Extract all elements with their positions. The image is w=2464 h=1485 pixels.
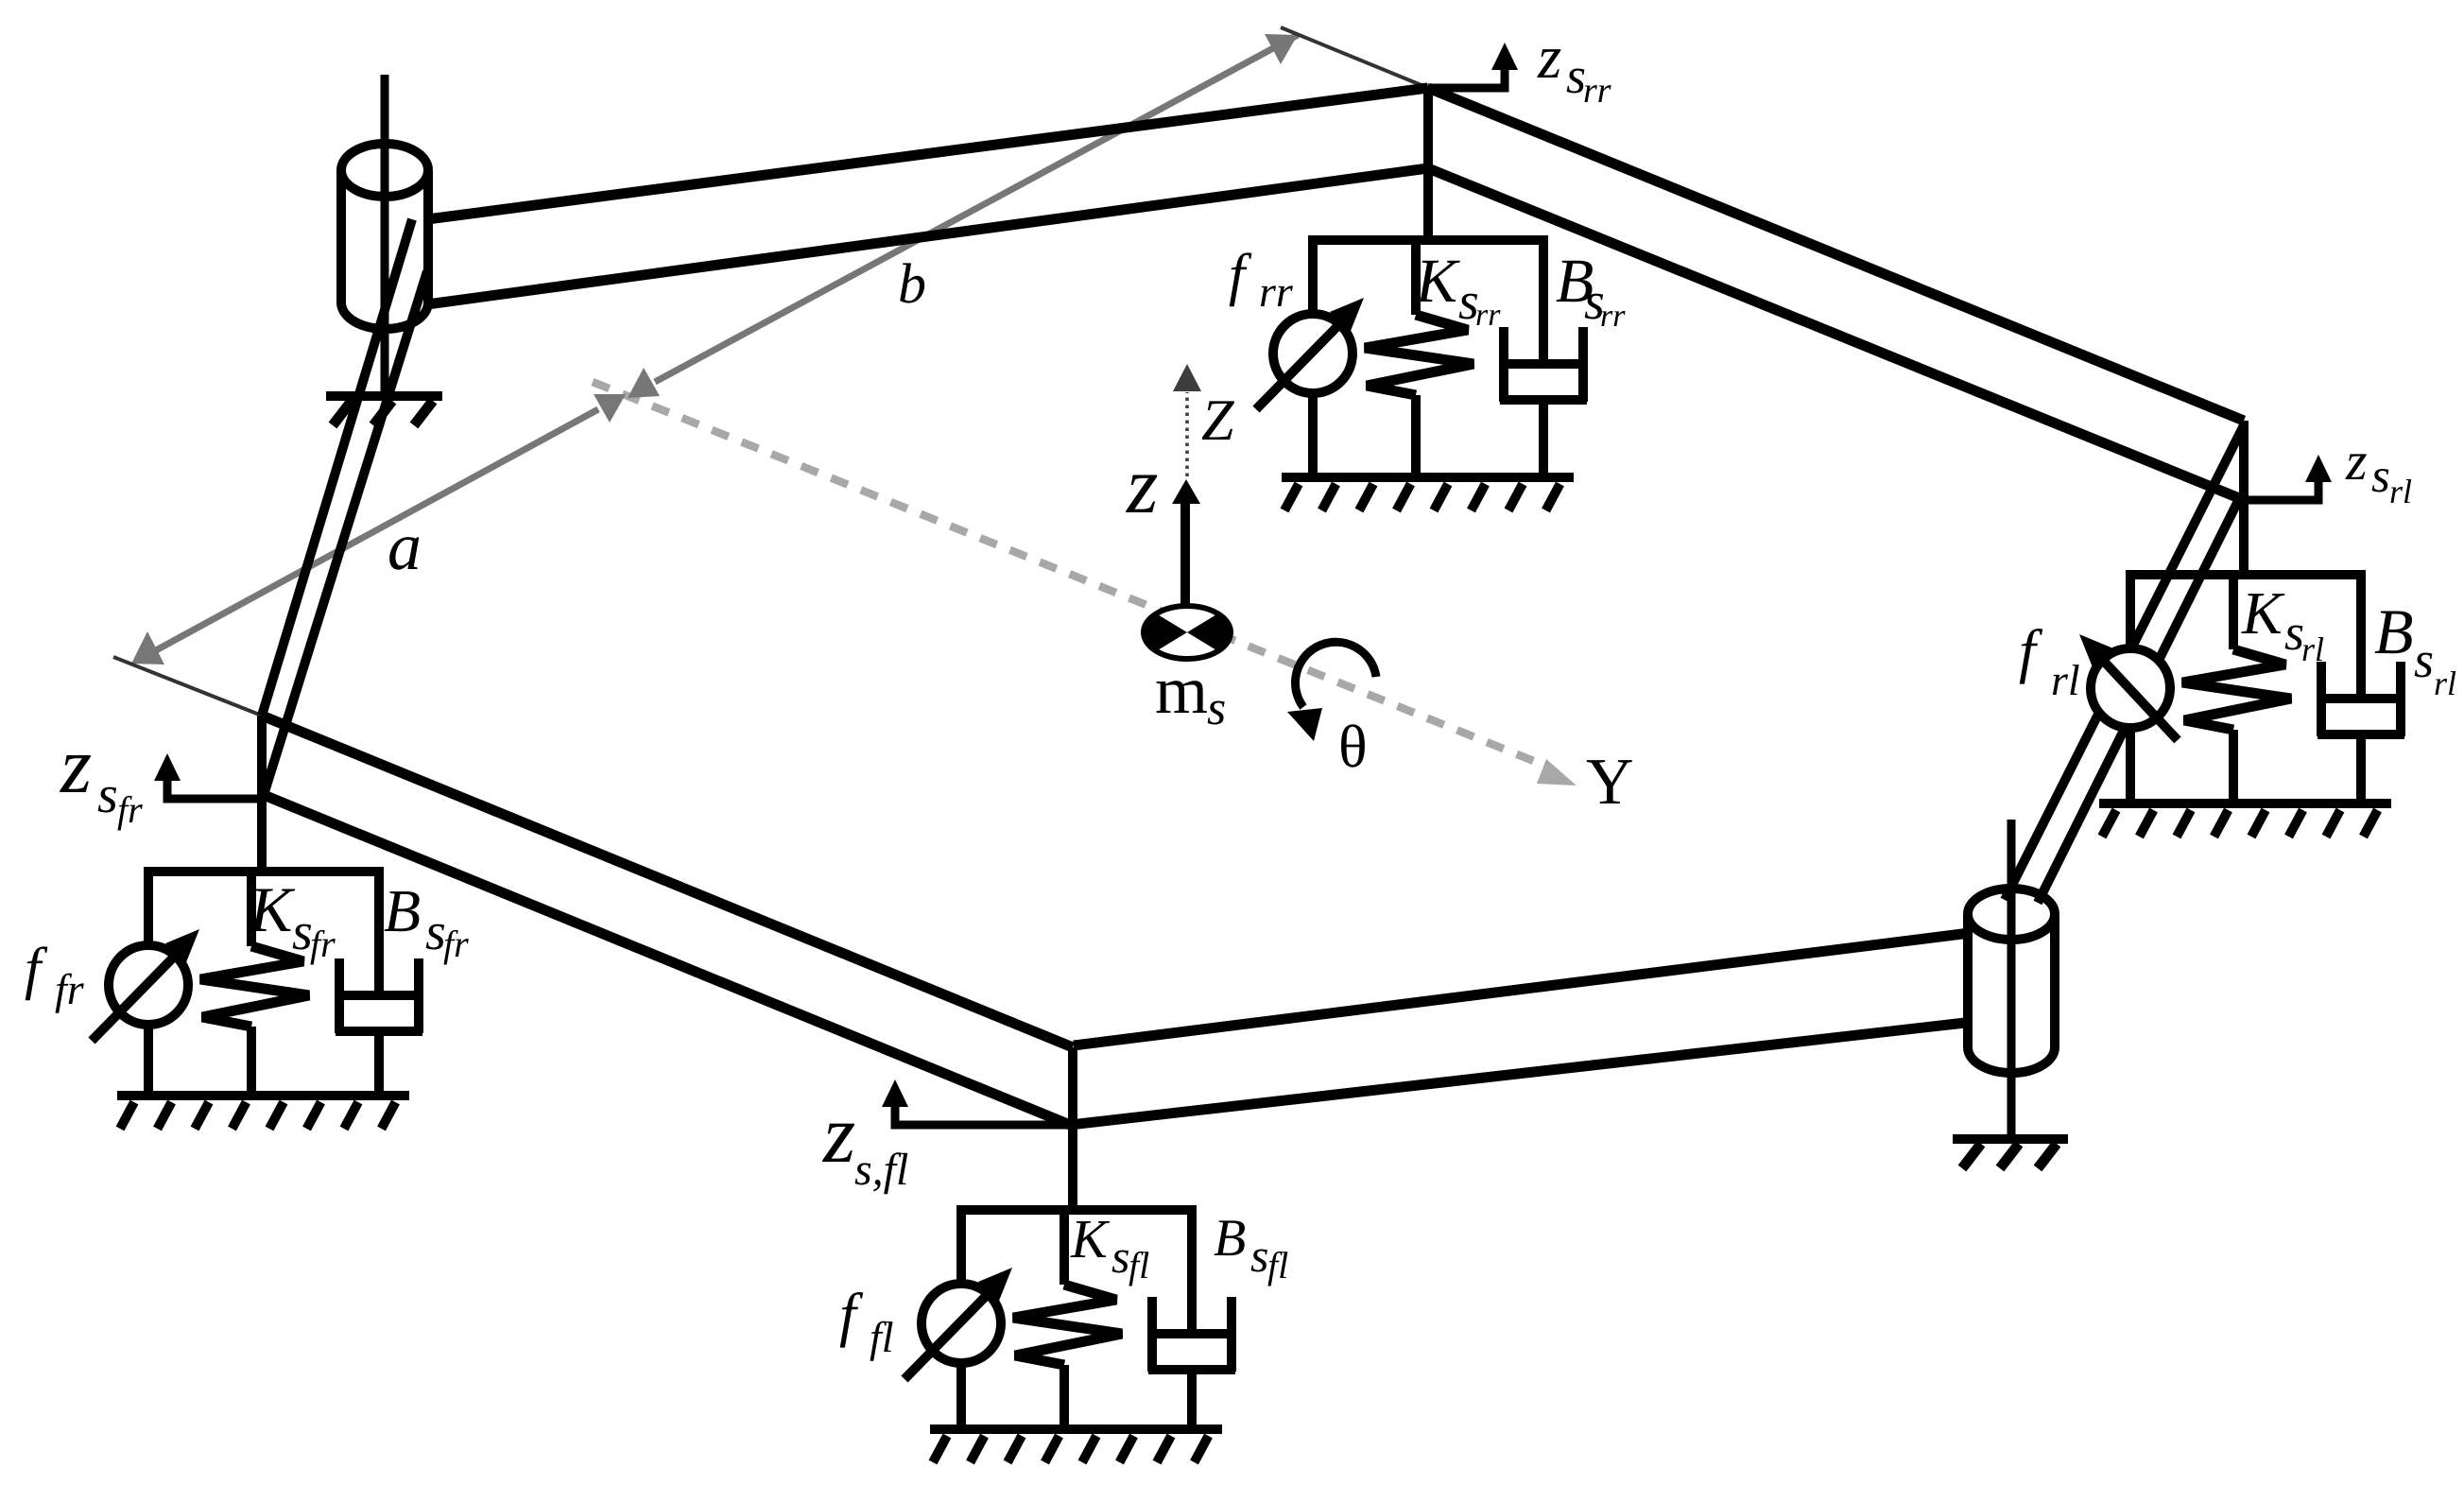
axis Y dashed line <box>593 382 1550 768</box>
rod rear-left to right cylinder (edge 1) <box>2005 425 2244 900</box>
label z_s_rr <box>1537 24 1611 111</box>
dimension line a SW arrowhead <box>131 631 164 665</box>
svg-text:f: f <box>2019 617 2043 684</box>
spring K_s_rr <box>1411 235 1421 315</box>
svg-text:rr: rr <box>1600 299 1626 334</box>
actuator f_rl branch <box>2126 570 2135 649</box>
actuator f_fr circle <box>109 945 188 1025</box>
svg-text:s: s <box>1207 682 1226 735</box>
rod front-right to left cylinder (edge 2) <box>264 271 427 795</box>
label f_fl <box>839 1281 894 1361</box>
dimension line a <box>156 409 598 650</box>
label f_rl <box>2019 617 2080 704</box>
label z_s_fl <box>822 1089 908 1195</box>
svg-text:K: K <box>1070 1208 1111 1269</box>
actuator f_rr circle <box>1273 314 1353 393</box>
plate bottom edge rear-right <box>1428 168 2244 500</box>
node z_s_fl marker <box>895 1104 1073 1125</box>
dimension line b <box>655 35 1298 382</box>
svg-text:s: s <box>97 766 118 824</box>
bracket fl <box>956 1205 1195 1215</box>
svg-text:B: B <box>2374 596 2414 667</box>
label z_s_rl <box>2345 430 2412 510</box>
ground rr <box>1282 473 1574 482</box>
plate top edge rear-right (z_s_rr to z_s_rl corner) <box>1428 88 2244 421</box>
svg-text:K: K <box>2241 579 2285 647</box>
actuator f_fr branch <box>144 867 153 946</box>
axis z arrow <box>1180 497 1190 630</box>
svg-text:rr: rr <box>1583 71 1611 111</box>
svg-text:s: s <box>1250 1229 1268 1282</box>
actuator f_rr arrow <box>1256 317 1347 409</box>
svg-text:s: s <box>1111 1230 1129 1283</box>
plate corner edge and link z_s_rr <box>1423 88 1433 240</box>
svg-text:fl: fl <box>870 1313 894 1361</box>
bracket rl <box>2126 570 2364 579</box>
pivot cylinder left pivot <box>341 170 428 329</box>
label f_rr <box>1229 243 1294 316</box>
label K_s_rr <box>1415 247 1501 333</box>
svg-text:z: z <box>2345 430 2368 492</box>
actuator f_fl circle <box>922 1284 1001 1363</box>
label theta <box>1338 713 1368 780</box>
plate corner edge and link z_s_fr <box>257 716 267 872</box>
plate bottom edge front-left <box>1070 1022 1973 1125</box>
label z center <box>1126 440 1158 530</box>
svg-text:s: s <box>2414 631 2434 688</box>
svg-text:B: B <box>384 877 421 944</box>
label a <box>388 509 422 584</box>
node z_s_rl marker <box>2244 479 2318 500</box>
svg-text:z: z <box>1126 440 1158 530</box>
svg-text:a: a <box>388 509 422 584</box>
plate bottom edge rear-left <box>427 168 1428 304</box>
leader line to rear-right corner <box>1281 27 1428 88</box>
ground fr <box>117 1091 409 1100</box>
pitch rotation theta arc <box>1295 642 1376 707</box>
label B_s_fl <box>1214 1209 1288 1286</box>
plate corner edge and link z_s_fl <box>1068 1047 1077 1212</box>
rod rear-left to right cylinder (edge 2) <box>2038 501 2238 903</box>
svg-text:Z: Z <box>1201 389 1234 453</box>
label B_s_rr <box>1556 247 1626 334</box>
svg-text:rl: rl <box>2434 665 2456 702</box>
svg-text:K: K <box>249 873 296 945</box>
svg-text:rr: rr <box>1475 298 1501 333</box>
dimension line b NE arrowhead <box>1265 34 1298 64</box>
svg-text:f: f <box>839 1281 864 1348</box>
svg-text:b: b <box>898 252 926 315</box>
plate top edge front-left (z_s_fl corner to right cylinder) <box>1074 933 1970 1045</box>
leader line to front-right corner <box>113 657 262 716</box>
bracket rr <box>1308 235 1546 245</box>
svg-text:fl: fl <box>1129 1244 1149 1286</box>
label K_s_rl <box>2241 579 2324 668</box>
dimension line b SW arrowhead <box>628 368 660 398</box>
svg-text:rl: rl <box>2051 656 2080 704</box>
svg-text:fr: fr <box>443 923 469 965</box>
damper B_s_fl <box>1187 1205 1197 1331</box>
pivot rod left pivot centerline <box>381 75 389 396</box>
actuator f_fr arrow <box>92 948 182 1041</box>
svg-text:fr: fr <box>55 965 85 1013</box>
label f_fr <box>25 937 85 1013</box>
bracket fr <box>144 867 382 876</box>
svg-text:z: z <box>1537 24 1561 92</box>
center of mass m_s symbol <box>1144 606 1231 659</box>
svg-text:z: z <box>822 1089 855 1181</box>
svg-text:m: m <box>1155 652 1208 728</box>
label K_s_fr <box>249 873 336 965</box>
node z_s_fr marker <box>167 778 262 799</box>
svg-text:f: f <box>25 937 48 1001</box>
plate corner edge and link z_s_rl <box>2239 421 2249 575</box>
axis Z arrowhead <box>1173 364 1201 391</box>
svg-text:rr: rr <box>1259 268 1294 316</box>
actuator f_fl branch <box>956 1205 966 1285</box>
dimension line a NE arrowhead <box>594 394 626 423</box>
pivot cylinder right pivot <box>1968 914 2055 1073</box>
svg-text:z: z <box>60 721 92 810</box>
ground left pivot <box>326 391 442 401</box>
spring K_s_fl <box>1060 1205 1069 1285</box>
svg-text:Y: Y <box>1586 746 1634 819</box>
svg-text:fr: fr <box>117 788 143 831</box>
rod front-right to left cylinder (edge 1) <box>262 219 412 716</box>
svg-text:s,fl: s,fl <box>854 1145 908 1195</box>
pivot rod right pivot centerline <box>2007 820 2016 1139</box>
label B_s_rl <box>2374 596 2456 702</box>
actuator f_rl circle <box>2091 648 2170 728</box>
svg-text:f: f <box>1229 243 1252 307</box>
ground right pivot <box>1953 1134 2068 1144</box>
actuator f_fl arrow <box>905 1286 995 1379</box>
label z_s_fr <box>60 721 143 831</box>
damper B_s_fr <box>374 867 384 993</box>
svg-text:θ: θ <box>1338 713 1368 780</box>
svg-text:s: s <box>2371 450 2390 503</box>
ground rl <box>2099 799 2391 808</box>
damper B_s_rl <box>2356 570 2366 696</box>
ground fl <box>930 1425 1222 1434</box>
svg-text:K: K <box>1415 247 1460 316</box>
actuator f_rr branch <box>1308 235 1318 315</box>
svg-text:rl: rl <box>2389 473 2412 510</box>
label B_s_fr <box>384 877 469 965</box>
label b <box>898 252 926 315</box>
damper B_s_rr <box>1539 235 1548 361</box>
actuator f_rl arrow <box>2096 653 2178 740</box>
plate top edge front-right (z_s_fr to z_s_fl corner) <box>262 716 1073 1047</box>
label Y axis <box>1586 746 1634 819</box>
svg-text:B: B <box>1214 1209 1246 1268</box>
plate bottom edge front-right <box>264 795 1070 1125</box>
spring K_s_fr <box>247 867 256 946</box>
axis Z dotted line <box>1185 392 1189 476</box>
svg-text:fr: fr <box>310 923 336 965</box>
node z_s_rr marker <box>1428 67 1505 88</box>
label Z axis <box>1201 389 1234 453</box>
spring K_s_rl <box>2229 570 2238 649</box>
svg-text:fl: fl <box>1267 1244 1288 1286</box>
label m_s <box>1155 652 1226 735</box>
svg-text:rl: rl <box>2301 630 2324 668</box>
label K_s_fl <box>1070 1208 1149 1286</box>
plate top edge rear-left (cylinder to z_s_rr corner) <box>427 88 1428 219</box>
axis Y arrowhead <box>1537 759 1577 786</box>
